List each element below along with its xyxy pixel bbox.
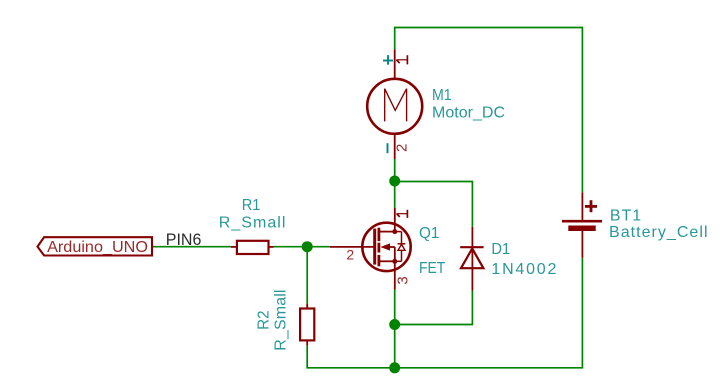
resistor R1 [231,241,274,254]
svg-text:BT1: BT1 [610,207,641,224]
diode D1 [460,227,483,291]
wire source node to bottom rail [394,325,396,368]
junction node below motor [389,176,400,187]
svg-text:R_Small: R_Small [273,290,290,351]
svg-text:2: 2 [346,246,354,262]
motor pin name - [387,143,389,153]
wire battery bottom to bottom rail to R2 bottom [307,258,582,368]
junction node bottom rail [389,362,400,373]
svg-text:D1: D1 [491,241,510,258]
channel bar bottom [377,255,380,266]
source pin [394,261,396,289]
svg-text:R_Small: R_Small [219,215,286,232]
svg-text:Battery_Cell: Battery_Cell [609,224,708,241]
svg-text:M1: M1 [432,87,452,104]
wire gate node down to R2 [306,247,308,304]
FET pin number 1 [397,210,408,218]
battery BT1 [562,192,602,257]
svg-text:R2: R2 [256,310,273,330]
drain pin [394,208,396,232]
resistor R2 [300,304,314,346]
wire node to D1 cathode [395,182,473,227]
svg-text:3: 3 [394,276,411,284]
channel bar middle [377,243,380,253]
wire node to FET drain [394,181,396,208]
svg-text:R1: R1 [242,197,261,214]
svg-text:2: 2 [394,144,411,152]
junction node gate/R1/R2 [302,241,313,252]
wire R1 to FET gate [274,246,330,248]
transistor Q1 FET [330,208,411,290]
body diode [395,231,402,233]
wire D1 anode to source node [395,291,473,325]
wire FET source down [394,290,396,325]
wire top rail: motor top to battery top [395,28,583,193]
wire label to R1 [153,246,231,248]
junction node source/D1 [389,319,400,330]
svg-text:1N4002: 1N4002 [491,261,556,278]
motor pin name + [383,55,393,65]
wire motor bottom to node [394,159,396,181]
channel bar top [377,228,380,242]
source stub [380,260,395,262]
internal junction dots [392,229,397,234]
gate pin [330,246,375,248]
global label Arduino_UNO flag [38,237,153,255]
svg-text:Arduino_UNO: Arduino_UNO [47,239,148,256]
svg-text:PIN6: PIN6 [166,230,202,249]
svg-text:Motor_DC: Motor_DC [432,105,505,122]
body arrow [381,243,391,250]
drain stub [380,231,395,233]
motor pin number 1 [396,55,407,64]
motor M1 [367,49,422,159]
gate bar [373,229,376,265]
battery plus sign [585,205,597,208]
svg-text:FET: FET [419,260,445,277]
svg-text:Q1: Q1 [419,225,439,242]
